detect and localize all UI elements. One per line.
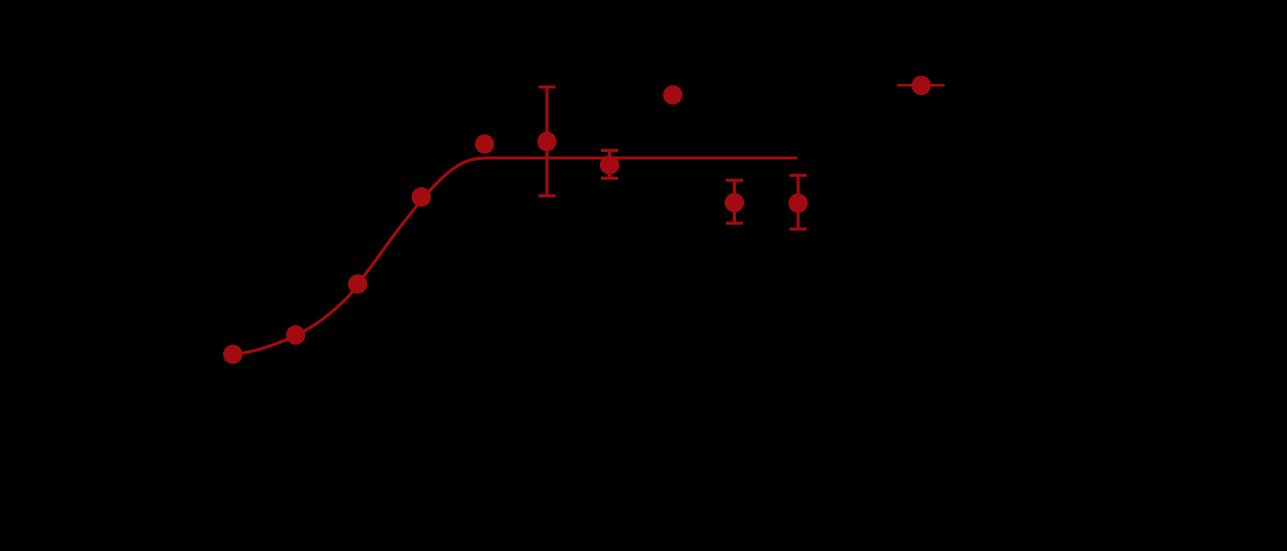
legend line	[897, 84, 945, 87]
data point 4	[412, 187, 431, 206]
error bar point 10	[790, 175, 807, 229]
data point 6	[537, 132, 556, 151]
fitted dose-response curve	[233, 158, 798, 355]
error bar point 9	[726, 180, 743, 223]
legend marker	[912, 76, 931, 95]
data point 5	[475, 134, 494, 153]
data point 8	[663, 85, 682, 104]
data point 9	[725, 193, 744, 212]
data point 10	[788, 194, 807, 213]
error bar point 7	[601, 150, 618, 178]
error bar point 6	[538, 87, 555, 196]
data point 2	[286, 325, 305, 344]
data point 3	[348, 274, 367, 293]
data point 7	[600, 155, 619, 174]
data point 1	[223, 345, 242, 364]
